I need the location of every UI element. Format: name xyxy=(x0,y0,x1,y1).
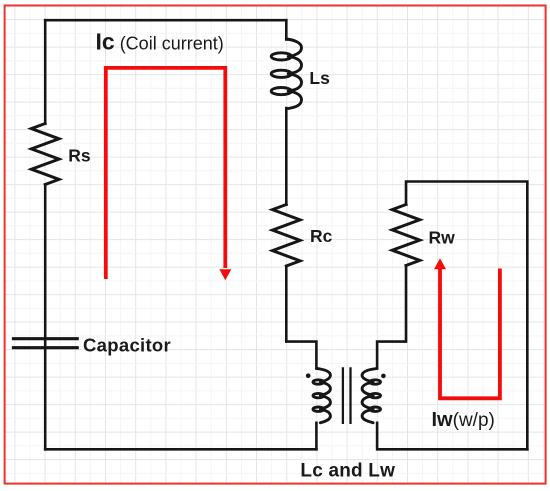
polarity dot Lc xyxy=(306,373,311,378)
wire Ls to Rc xyxy=(285,108,288,205)
wire Lc winding bottom xyxy=(315,423,318,450)
resistor Rs xyxy=(31,124,59,185)
current arrow Iw path xyxy=(440,268,500,399)
svg-text:Capacitor: Capacitor xyxy=(83,335,171,356)
wire bottom left (capacitor to Lc winding) xyxy=(45,448,316,451)
wire left upper (top to Rs) xyxy=(44,20,47,123)
svg-text:Ic (Coil current): Ic (Coil current) xyxy=(96,29,224,55)
wire stub Ls top xyxy=(285,20,288,39)
resistor Rw xyxy=(392,205,420,266)
wire left lower (Rs to capacitor to bottom) xyxy=(44,185,47,450)
transformer primary winding Lc xyxy=(313,368,330,422)
svg-text:Rw: Rw xyxy=(429,228,456,248)
wire Rc to Lc winding top xyxy=(286,266,316,368)
capacitor C1 plate bottom xyxy=(14,346,78,349)
inductor Ls xyxy=(271,39,301,109)
svg-text:Rc: Rc xyxy=(310,226,333,246)
resistor Rc xyxy=(273,205,301,267)
current arrow Ic head xyxy=(219,269,231,280)
svg-text:Iw(w/p): Iw(w/p) xyxy=(432,409,495,431)
current arrow Ic path xyxy=(106,68,226,279)
wire bottom right (Lw to right edge) xyxy=(377,423,527,450)
wire Lw winding top to Rw xyxy=(377,266,406,369)
polarity dot Lw xyxy=(381,374,386,379)
svg-text:Lc and Lw: Lc and Lw xyxy=(300,461,395,482)
capacitor C1 plate top xyxy=(14,337,78,340)
svg-text:Rs: Rs xyxy=(68,146,91,166)
wire top (node between Rs and Ls) xyxy=(45,19,286,22)
svg-text:Ls: Ls xyxy=(309,68,330,88)
transformer secondary winding Lw xyxy=(362,368,380,422)
current arrow Iw head xyxy=(434,258,446,269)
wire Rw top to right edge xyxy=(406,182,527,450)
transformer core xyxy=(343,368,351,422)
